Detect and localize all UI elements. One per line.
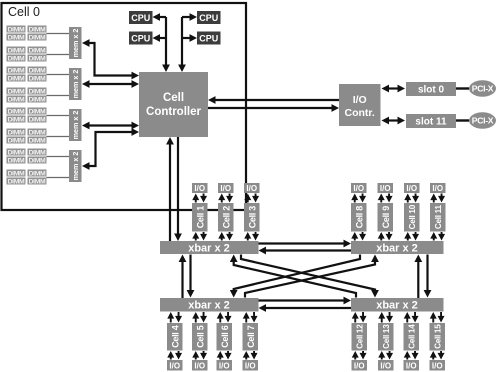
wire xbar2 to xbar1 diagonal (245, 260, 375, 298)
svg-text:Cell 8: Cell 8 (354, 206, 364, 229)
PCI-X bus 0 (469, 80, 496, 96)
I/O block Cell 12 (352, 360, 368, 371)
svg-text:PCI-X: PCI-X (472, 84, 494, 94)
wire Cell 8 to xbar (354, 235, 356, 241)
svg-text:Cell 14: Cell 14 (408, 324, 417, 349)
svg-text:Cell 3: Cell 3 (247, 206, 257, 229)
svg-text:I/O: I/O (380, 184, 391, 193)
svg-text:Cell 6: Cell 6 (220, 325, 230, 348)
I/O block Cell 6 (217, 360, 233, 371)
wire I/O to Cell 2 (221, 197, 223, 203)
cell controller U1 (139, 72, 208, 137)
svg-text:DIMM: DIMM (29, 68, 46, 75)
DIMM g2 r4 c2 (28, 96, 47, 103)
wire DIMM group 3 to mem (47, 115, 70, 117)
DIMM g2 r3 c1 (7, 88, 26, 95)
wire I/O contr to slot 0 (double arrow) (385, 87, 401, 89)
svg-text:DIMM: DIMM (8, 138, 25, 145)
I/O controller (339, 84, 381, 126)
svg-text:DIMM: DIMM (8, 150, 25, 157)
Cell 1 (192, 203, 208, 232)
CPU 3 (197, 11, 221, 24)
I/O block Cell 10 (404, 183, 420, 193)
svg-text:mem x 2: mem x 2 (71, 111, 80, 140)
svg-text:Cell 13: Cell 13 (382, 324, 391, 349)
svg-text:Cell 15: Cell 15 (434, 324, 443, 349)
PCI-X bus 11 (469, 112, 496, 128)
wire left xbars bottom-to-top (181, 260, 183, 298)
wire I/O controller to Cell Controller (214, 99, 339, 101)
DIMM g2 r3 c2 (28, 88, 47, 95)
svg-text:DIMM: DIMM (29, 76, 46, 83)
DIMM g1 r2 c2 (28, 34, 47, 41)
DIMM g3 r3 c1 (7, 129, 26, 136)
mem x 2 block 1 (69, 27, 82, 59)
xbar 2 (bottom left) (160, 298, 259, 312)
wire left CPU bus to Cell Controller (165, 17, 167, 65)
svg-text:DIMM: DIMM (29, 138, 46, 145)
wire DIMM group 1 to mem (47, 33, 70, 35)
svg-text:DIMM: DIMM (29, 130, 46, 137)
I/O block Cell 15 (430, 360, 446, 371)
svg-text:DIMM: DIMM (29, 117, 46, 124)
svg-text:DIMM: DIMM (8, 56, 25, 63)
I/O block Cell 9 (378, 183, 394, 193)
wire Cell 4 to I/O (170, 354, 172, 360)
DIMM g3 r2 c1 (7, 116, 26, 123)
I/O block Cell 8 (351, 183, 367, 193)
Cell 5 (192, 323, 208, 351)
svg-text:DIMM: DIMM (8, 35, 25, 42)
DIMM g1 r4 c1 (7, 55, 26, 62)
svg-text:DIMM: DIMM (8, 27, 25, 34)
wire slot 11 to PCI-X (456, 119, 469, 121)
wire right xbars top-to-bottom (426, 255, 428, 293)
DIMM g2 r4 c1 (7, 96, 26, 103)
svg-text:Cell: Cell (163, 92, 184, 104)
svg-text:xbar x 2: xbar x 2 (376, 243, 418, 255)
xbar 3 (bottom right) (351, 298, 444, 312)
mem x 2 block 3 (69, 109, 82, 141)
wire xbar to Cell 5 (195, 315, 197, 323)
svg-text:I/O: I/O (432, 361, 443, 370)
wire xbar to Cell 13 (381, 315, 383, 323)
Cell 4 (167, 323, 183, 351)
svg-text:xbar x 2: xbar x 2 (376, 300, 418, 312)
svg-text:slot 0: slot 0 (418, 85, 445, 96)
DIMM g1 r4 c2 (28, 55, 47, 62)
Cell 13 (378, 323, 394, 351)
DIMM g4 r2 c1 (7, 157, 26, 164)
svg-text:mem x 2: mem x 2 (71, 152, 80, 181)
svg-text:DIMM: DIMM (29, 48, 46, 55)
svg-text:Cell 4: Cell 4 (170, 325, 180, 348)
svg-text:Cell 1: Cell 1 (195, 206, 205, 229)
wire xbar3 to xbar0 diagonal (234, 260, 356, 298)
svg-text:mem x 2: mem x 2 (71, 70, 80, 99)
svg-text:DIMM: DIMM (29, 109, 46, 116)
wire Cell 5 to I/O (195, 354, 197, 360)
slot 0 (406, 82, 456, 96)
svg-text:I/O: I/O (220, 184, 231, 193)
svg-text:I/O: I/O (194, 184, 205, 193)
wire xbar to Cell Controller (up) (169, 143, 171, 241)
wire top xbars left-to-right (259, 242, 346, 244)
wire Cell 6 to I/O (219, 354, 221, 360)
I/O block Cell 5 (192, 360, 208, 371)
wire xbar to Cell 7 (245, 315, 247, 323)
wire Cell 13 to I/O (381, 354, 383, 360)
wire Cell 12 to I/O (354, 354, 356, 360)
DIMM g1 r1 c2 (28, 26, 47, 33)
svg-text:I/O: I/O (245, 361, 256, 370)
wire xbar0 to xbar3 diagonal (241, 255, 375, 293)
cell 0 enclosure box (2, 3, 247, 210)
CPU 4 (197, 32, 221, 45)
svg-text:DIMM: DIMM (8, 76, 25, 83)
svg-text:xbar x 2: xbar x 2 (188, 243, 230, 255)
svg-text:DIMM: DIMM (29, 171, 46, 178)
I/O block Cell 13 (378, 360, 394, 371)
wire mem2 to Cell Controller (double arrow) (88, 83, 134, 85)
svg-text:DIMM: DIMM (29, 56, 46, 63)
Cell 2 (218, 203, 234, 232)
svg-text:DIMM: DIMM (29, 89, 46, 96)
svg-text:DIMM: DIMM (8, 117, 25, 124)
wire Cell 11 to xbar (433, 235, 435, 241)
svg-text:I/O: I/O (194, 361, 205, 370)
DIMM g2 r1 c2 (28, 67, 47, 74)
DIMM g3 r3 c2 (28, 129, 47, 136)
svg-text:DIMM: DIMM (29, 179, 46, 186)
CPU 2 (129, 32, 153, 45)
wire left xbars top-to-bottom (189, 255, 191, 293)
svg-text:Cell 7: Cell 7 (246, 325, 256, 348)
svg-text:Cell 9: Cell 9 (381, 206, 391, 229)
wire I/O to Cell 3 (247, 197, 249, 203)
wire I/O to Cell 1 (195, 197, 197, 203)
I/O block Cell 14 (404, 360, 420, 371)
svg-text:I/O: I/O (246, 184, 257, 193)
wire Cell Controller to xbar (down) (177, 137, 179, 235)
wire top xbars right-to-left (265, 249, 352, 251)
svg-text:DIMM: DIMM (8, 48, 25, 55)
svg-text:DIMM: DIMM (8, 68, 25, 75)
wire DIMM group 2 to mem (47, 74, 70, 76)
wire Cell 2 to xbar (221, 235, 223, 241)
slot 11 (406, 114, 456, 128)
svg-text:DIMM: DIMM (8, 130, 25, 137)
svg-text:xbar x 2: xbar x 2 (188, 300, 230, 312)
svg-text:Cell 10: Cell 10 (408, 204, 417, 229)
DIMM g4 r1 c2 (28, 149, 47, 156)
Cell 7 (243, 323, 259, 351)
svg-text:DIMM: DIMM (8, 179, 25, 186)
CPU 1 (129, 11, 153, 24)
svg-text:mem x 2: mem x 2 (71, 29, 80, 58)
svg-text:Controller: Controller (146, 106, 201, 118)
svg-text:DIMM: DIMM (8, 109, 25, 116)
svg-text:DIMM: DIMM (29, 27, 46, 34)
Cell 14 (404, 323, 420, 351)
wire Cell 15 to I/O (432, 354, 434, 360)
svg-text:CPU: CPU (131, 13, 150, 23)
wire I/O to Cell 10 (407, 197, 409, 203)
svg-text:I/O: I/O (353, 94, 367, 106)
wire Cell 7 to I/O (245, 354, 247, 360)
DIMM g1 r3 c2 (28, 47, 47, 54)
svg-text:I/O: I/O (380, 361, 391, 370)
svg-text:DIMM: DIMM (29, 35, 46, 42)
wire mem3 to Cell Controller (double arrow) (88, 124, 134, 126)
wire xbar to Cell 14 (406, 315, 408, 323)
svg-text:DIMM: DIMM (8, 97, 25, 104)
svg-text:Contr.: Contr. (345, 107, 375, 119)
DIMM g4 r4 c1 (7, 178, 26, 185)
Cell 15 (430, 323, 446, 351)
xbar 1 (top right) (351, 241, 444, 254)
svg-text:Cell 5: Cell 5 (195, 325, 205, 348)
wire bottom xbars right-to-left (265, 307, 352, 309)
I/O block Cell 3 (244, 183, 260, 193)
svg-text:DIMM: DIMM (29, 97, 46, 104)
svg-text:I/O: I/O (406, 361, 417, 370)
Cell 6 (217, 323, 233, 351)
Cell 10 (404, 203, 420, 232)
DIMM g4 r4 c2 (28, 178, 47, 185)
mem x 2 block 4 (69, 150, 82, 182)
wire Cell 3 to xbar (247, 235, 249, 241)
svg-text:Cell 2: Cell 2 (221, 206, 231, 229)
svg-text:DIMM: DIMM (8, 158, 25, 165)
wire bottom xbars left-to-right (259, 299, 346, 301)
Cell 8 (351, 203, 367, 232)
wire xbar to Cell 4 (170, 315, 172, 323)
svg-text:DIMM: DIMM (8, 171, 25, 178)
Cell 9 (378, 203, 394, 232)
Cell 3 (244, 203, 260, 232)
mem x 2 block 2 (69, 68, 82, 100)
wire I/O to Cell 11 (433, 197, 435, 203)
wire Cell 14 to I/O (406, 354, 408, 360)
wire I/O to Cell 8 (354, 197, 356, 203)
I/O block Cell 11 (430, 183, 446, 193)
DIMM g1 r2 c1 (7, 34, 26, 41)
svg-text:Cell 11: Cell 11 (434, 205, 443, 230)
I/O block Cell 2 (218, 183, 234, 193)
wire right xbars bottom-to-top (417, 260, 419, 298)
wire xbar to Cell 6 (219, 315, 221, 323)
svg-text:slot 11: slot 11 (415, 117, 447, 128)
svg-text:I/O: I/O (432, 184, 443, 193)
svg-text:Cell 12: Cell 12 (356, 324, 365, 349)
svg-text:CPU: CPU (131, 34, 150, 44)
DIMM g4 r3 c1 (7, 170, 26, 177)
wire xbar to Cell 15 (432, 315, 434, 323)
wire Cell Controller to I/O controller (208, 107, 333, 109)
DIMM g3 r1 c2 (28, 108, 47, 115)
DIMM g2 r2 c1 (7, 75, 26, 82)
DIMM g2 r2 c2 (28, 75, 47, 82)
DIMM g3 r2 c2 (28, 116, 47, 123)
wire Cell 1 to xbar (195, 235, 197, 241)
svg-text:I/O: I/O (406, 184, 417, 193)
Cell 11 (430, 203, 446, 232)
DIMM g3 r4 c2 (28, 137, 47, 144)
DIMM g4 r3 c2 (28, 170, 47, 177)
svg-text:CPU: CPU (199, 13, 218, 23)
I/O block Cell 1 (192, 183, 208, 193)
DIMM g1 r3 c1 (7, 47, 26, 54)
wire I/O to Cell 9 (380, 197, 382, 203)
I/O block Cell 7 (243, 360, 259, 371)
svg-text:DIMM: DIMM (29, 150, 46, 157)
svg-text:Cell 0: Cell 0 (8, 5, 40, 19)
wire Cell 10 to xbar (407, 235, 409, 241)
svg-text:I/O: I/O (219, 361, 230, 370)
DIMM g1 r1 c1 (7, 26, 26, 33)
svg-text:PCI-X: PCI-X (472, 116, 494, 126)
svg-text:I/O: I/O (354, 361, 365, 370)
wire I/O contr to slot 11 (double arrow) (385, 119, 401, 121)
Cell 12 (352, 323, 368, 351)
wire right CPU bus to Cell Controller (181, 17, 183, 65)
DIMM g3 r1 c1 (7, 108, 26, 115)
DIMM g4 r1 c1 (7, 149, 26, 156)
DIMM g3 r4 c1 (7, 137, 26, 144)
wire mem1 to Cell Controller (elbow, double arrow) (88, 43, 134, 76)
I/O block Cell 4 (167, 360, 183, 371)
xbar 0 (top left) (160, 241, 259, 254)
svg-text:I/O: I/O (169, 361, 180, 370)
wire xbar1 to xbar2 diagonal (234, 255, 360, 293)
svg-text:DIMM: DIMM (8, 89, 25, 96)
svg-text:CPU: CPU (199, 34, 218, 44)
wire Cell 9 to xbar (380, 235, 382, 241)
svg-text:I/O: I/O (353, 184, 364, 193)
wire xbar to Cell 12 (354, 315, 356, 323)
wire mem4 to Cell Controller (elbow, double arrow) (88, 132, 134, 166)
wire slot 0 to PCI-X (456, 87, 469, 89)
wire DIMM group 4 to mem (47, 156, 70, 158)
svg-text:DIMM: DIMM (29, 158, 46, 165)
DIMM g2 r1 c1 (7, 67, 26, 74)
DIMM g4 r2 c2 (28, 157, 47, 164)
